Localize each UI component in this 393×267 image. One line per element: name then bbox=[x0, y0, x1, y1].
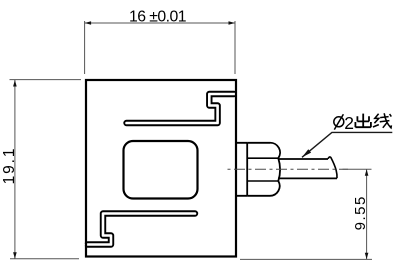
svg-text:9.55: 9.55 bbox=[352, 195, 369, 230]
svg-text:2: 2 bbox=[344, 113, 354, 133]
svg-text:19.1: 19.1 bbox=[1, 147, 18, 185]
svg-text:16 ±0.01: 16 ±0.01 bbox=[129, 9, 187, 26]
